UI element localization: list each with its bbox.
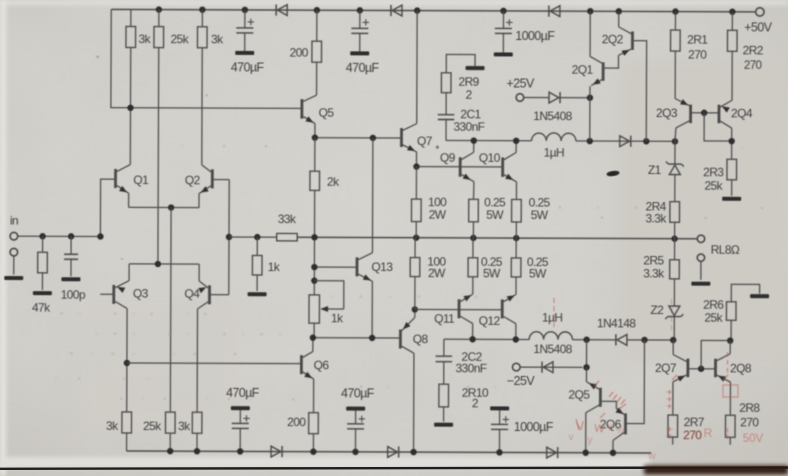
svg-text:1N5408: 1N5408 bbox=[533, 109, 572, 123]
svg-text:2Q3: 2Q3 bbox=[656, 106, 678, 120]
svg-text:+50V: +50V bbox=[744, 20, 772, 34]
svg-text:R: R bbox=[704, 426, 713, 440]
svg-text:5W: 5W bbox=[486, 208, 504, 222]
svg-text:330nF: 330nF bbox=[453, 120, 484, 134]
svg-text:47k: 47k bbox=[32, 301, 51, 315]
svg-text:470µF: 470µF bbox=[231, 60, 265, 74]
svg-text:470µF: 470µF bbox=[341, 386, 375, 400]
svg-text:2R5: 2R5 bbox=[643, 253, 664, 267]
svg-text:2Q2: 2Q2 bbox=[602, 32, 624, 46]
svg-text:50V: 50V bbox=[743, 433, 764, 445]
svg-text:Z2: Z2 bbox=[650, 303, 664, 317]
svg-text:w: w bbox=[647, 451, 656, 462]
svg-text:v: v bbox=[608, 422, 613, 433]
svg-text:Q8: Q8 bbox=[413, 332, 429, 346]
svg-text:25k: 25k bbox=[704, 311, 723, 325]
svg-text:Q10: Q10 bbox=[479, 151, 501, 165]
svg-text:1µH: 1µH bbox=[544, 146, 565, 160]
svg-text:+25V: +25V bbox=[506, 76, 534, 90]
svg-text:2: 2 bbox=[472, 396, 479, 410]
svg-text:2W: 2W bbox=[428, 266, 446, 280]
svg-text:2R3: 2R3 bbox=[703, 165, 724, 179]
svg-text:2Q1: 2Q1 bbox=[572, 63, 594, 77]
svg-text:270: 270 bbox=[740, 415, 759, 429]
svg-text:Q1: Q1 bbox=[133, 173, 149, 187]
svg-text:3k: 3k bbox=[106, 419, 119, 433]
svg-text:2Q4: 2Q4 bbox=[731, 106, 753, 120]
svg-text:25k: 25k bbox=[704, 179, 723, 193]
svg-text:2R8: 2R8 bbox=[739, 401, 760, 415]
svg-text:▪▫▪▫ ▫▪ ▪: ▪▫▪▫ ▫▪ ▪ bbox=[70, 348, 240, 361]
svg-text:33k: 33k bbox=[278, 212, 297, 226]
svg-text:Q9: Q9 bbox=[440, 151, 456, 165]
svg-text:270: 270 bbox=[688, 48, 707, 62]
svg-text:1k: 1k bbox=[268, 260, 281, 274]
svg-text:2k: 2k bbox=[327, 175, 340, 189]
svg-text:Q6: Q6 bbox=[314, 358, 330, 372]
svg-text:5W: 5W bbox=[529, 267, 547, 281]
svg-text:Q3: Q3 bbox=[133, 286, 149, 300]
svg-text:v: v bbox=[569, 432, 574, 443]
svg-text:3k: 3k bbox=[178, 419, 191, 433]
svg-text:in: in bbox=[10, 214, 18, 228]
svg-text:Q7: Q7 bbox=[417, 134, 433, 148]
svg-text:2R1: 2R1 bbox=[687, 33, 708, 47]
svg-text:1N4148: 1N4148 bbox=[597, 316, 636, 330]
svg-text:470µF: 470µF bbox=[346, 61, 380, 75]
svg-text:2R2: 2R2 bbox=[743, 43, 764, 57]
svg-text:200: 200 bbox=[290, 46, 309, 60]
svg-text:2R7: 2R7 bbox=[684, 415, 705, 429]
svg-text:2: 2 bbox=[465, 88, 472, 102]
svg-text:5W: 5W bbox=[483, 266, 501, 280]
svg-text:1N5408: 1N5408 bbox=[533, 342, 572, 356]
svg-text:Q2: Q2 bbox=[185, 173, 201, 187]
svg-text:270: 270 bbox=[683, 428, 702, 442]
svg-text:1k: 1k bbox=[331, 311, 344, 325]
svg-text:200: 200 bbox=[287, 415, 306, 429]
svg-text:Q12: Q12 bbox=[479, 314, 501, 328]
svg-text:2R9: 2R9 bbox=[458, 75, 479, 89]
svg-text:3.3k: 3.3k bbox=[643, 266, 665, 280]
svg-text:Q4: Q4 bbox=[184, 287, 200, 301]
svg-text:▪▫ ▪▫▪ ▫▪: ▪▫ ▪▫▪ ▫▪ bbox=[60, 308, 210, 321]
svg-text:Z1: Z1 bbox=[648, 163, 662, 177]
svg-text:Q5: Q5 bbox=[319, 106, 335, 120]
svg-text:Q13: Q13 bbox=[371, 260, 393, 274]
svg-text:2Q5: 2Q5 bbox=[568, 388, 590, 402]
svg-text:270: 270 bbox=[744, 60, 762, 72]
svg-text:1000µF: 1000µF bbox=[514, 420, 554, 434]
svg-text:Q11: Q11 bbox=[434, 312, 455, 326]
svg-text:y: y bbox=[588, 435, 593, 446]
svg-text:½: ½ bbox=[616, 425, 625, 436]
svg-text:3k: 3k bbox=[138, 32, 151, 46]
svg-text:1000µF: 1000µF bbox=[515, 29, 555, 43]
svg-text:5W: 5W bbox=[531, 208, 549, 222]
svg-text:W: W bbox=[594, 423, 606, 436]
svg-text:100p: 100p bbox=[61, 288, 86, 302]
svg-text:2W: 2W bbox=[429, 208, 447, 222]
svg-text:3k: 3k bbox=[211, 32, 224, 46]
svg-text:330nF: 330nF bbox=[455, 361, 486, 375]
svg-text:25k: 25k bbox=[170, 32, 189, 46]
svg-text:2Q7: 2Q7 bbox=[655, 361, 677, 375]
svg-text:RL8Ω: RL8Ω bbox=[711, 243, 740, 257]
svg-text:2Q8: 2Q8 bbox=[730, 361, 752, 375]
svg-text:−25V: −25V bbox=[507, 374, 535, 388]
svg-text:1µH: 1µH bbox=[542, 311, 563, 325]
svg-text:25k: 25k bbox=[143, 419, 162, 433]
svg-text:2R6: 2R6 bbox=[703, 298, 724, 312]
